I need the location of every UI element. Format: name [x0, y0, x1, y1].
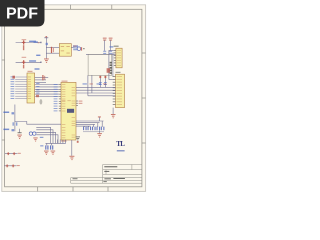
net label J1 top	[110, 46, 114, 47]
power flag P2	[109, 38, 113, 51]
wire branch	[15, 122, 61, 125]
wire	[36, 135, 58, 144]
wire	[35, 81, 46, 83]
power rail wire	[45, 38, 47, 59]
PDF badge	[0, 0, 45, 27]
capacitor C1	[16, 39, 42, 50]
wire bus to J2	[76, 87, 116, 95]
net flag A	[12, 112, 15, 114]
ground	[44, 151, 49, 155]
wire	[71, 140, 73, 156]
net flag B	[12, 129, 15, 131]
title block text	[73, 166, 125, 182]
net label rail A	[34, 41, 38, 42]
net labels far left	[36, 83, 39, 93]
wire	[112, 108, 114, 114]
crystal load capacitor CB	[50, 145, 53, 149]
crystal load capacitor CA	[45, 145, 48, 149]
connector J1	[114, 46, 123, 68]
CN1 net labels	[11, 76, 15, 99]
capacitor C12	[13, 122, 18, 125]
svg-text:TL: TL	[116, 140, 125, 148]
wire	[86, 53, 116, 55]
MCU left pin labels	[54, 84, 58, 111]
wire	[36, 132, 55, 143]
MCU right pins	[76, 101, 78, 105]
TVS diode row	[83, 127, 104, 131]
ground	[76, 136, 80, 142]
wire	[35, 77, 49, 79]
capacitor C10	[42, 75, 45, 80]
mounting hole H1	[40, 99, 43, 104]
net label rail B	[36, 55, 40, 56]
power flag VCC	[44, 36, 48, 38]
wire	[113, 53, 114, 77]
wire	[36, 127, 50, 143]
diode D6	[109, 51, 112, 54]
wire bus lower	[76, 121, 104, 127]
capacitor C7	[99, 76, 102, 88]
LED D8	[77, 47, 85, 51]
ground	[97, 133, 102, 137]
frame zone ticks	[2, 5, 146, 192]
net label XTAL1	[40, 137, 44, 138]
MCU U1	[61, 81, 76, 140]
net label left A	[3, 112, 9, 114]
wire	[35, 79, 46, 81]
net label VBUS2	[29, 60, 36, 61]
MCU left pins	[59, 85, 61, 111]
connector CN1	[27, 71, 35, 103]
USB connector body	[88, 54, 112, 75]
ground	[44, 59, 49, 63]
title block	[71, 165, 142, 184]
net labels on bus	[83, 83, 107, 84]
LED D3	[29, 132, 38, 142]
wire	[99, 130, 101, 133]
wire	[46, 52, 59, 54]
page sheet background	[0, 0, 149, 198]
CN1 left wires	[15, 77, 27, 99]
USB connector pins	[110, 62, 112, 74]
wire	[36, 130, 53, 144]
svg-text:PDF: PDF	[6, 5, 38, 22]
sheet frame border	[5, 9, 142, 187]
net label left B	[3, 129, 9, 131]
capacitor C9	[107, 68, 110, 73]
power flag P3	[98, 117, 101, 122]
ground	[111, 114, 116, 118]
MCU right pin labels	[79, 101, 83, 104]
net flag on rail	[46, 43, 48, 45]
wire CN1 to MCU rows	[35, 85, 59, 97]
net label 3V3	[73, 45, 78, 46]
MCU bottom label text	[61, 140, 66, 141]
capacitor C6	[73, 46, 78, 51]
diode D5	[103, 51, 106, 54]
power flag P1	[103, 38, 107, 51]
wire vertical left	[14, 105, 16, 132]
diode D2	[12, 76, 15, 79]
wire	[71, 47, 74, 49]
MCU bottom pins	[46, 140, 66, 146]
ground	[69, 156, 74, 160]
wire	[91, 75, 93, 93]
diode D4 row left	[5, 152, 21, 155]
ground	[51, 151, 56, 155]
capacitor C5	[51, 47, 54, 53]
TVS ground rail	[83, 131, 104, 133]
wire	[87, 75, 89, 96]
capacitor C11	[36, 95, 39, 97]
connector J2	[113, 72, 125, 108]
regulator U2	[59, 44, 71, 57]
diode D7 row left	[4, 165, 20, 168]
net label VBUS1	[29, 41, 36, 42]
wire	[46, 47, 59, 49]
net label above CN1	[35, 68, 40, 69]
capacitor C13	[17, 129, 22, 139]
capacitor C2	[16, 57, 42, 69]
wire	[109, 50, 114, 79]
net label XTAL2	[40, 145, 43, 146]
capacitor C8	[104, 76, 107, 88]
